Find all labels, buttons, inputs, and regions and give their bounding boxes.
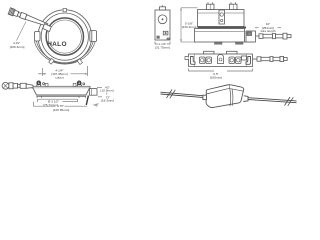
svg-text:[165mm]: [165mm] (210, 75, 222, 79)
svg-text:[10.9mm]: [10.9mm] (101, 89, 114, 93)
svg-text:wire length: wire length (261, 29, 276, 33)
svg-text:4.75": 4.75" (57, 104, 64, 108)
svg-text:[18.3mm]: [18.3mm] (101, 99, 114, 103)
svg-text:[120.65mm]: [120.65mm] (53, 108, 69, 112)
svg-text:[31.75mm]: [31.75mm] (155, 45, 170, 49)
svg-text:[106.3mm]: [106.3mm] (10, 45, 25, 49)
svg-text:HALO: HALO (47, 41, 67, 48)
svg-text:cutout: cutout (55, 76, 64, 80)
